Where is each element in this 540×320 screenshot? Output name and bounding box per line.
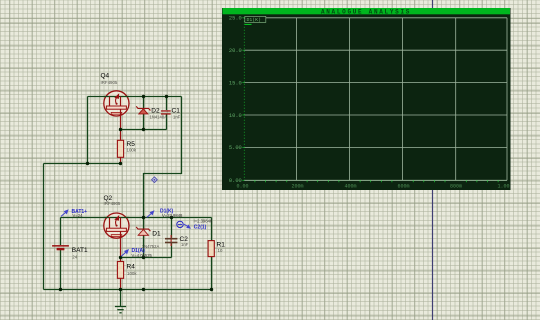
plot gridlines: [244, 18, 507, 181]
diode D1 zener: [136, 227, 150, 235]
resistor R1: [208, 241, 214, 257]
probe D1(K): [147, 208, 183, 218]
sheet border line: [432, 0, 434, 320]
diode D2 zener: [136, 106, 150, 114]
svg-text:D2: D2: [151, 107, 160, 114]
node marker origin diamond: [152, 177, 158, 183]
transistor Q4: [104, 91, 129, 130]
svg-text:1nF: 1nF: [173, 114, 181, 119]
junction R5 bottom: [119, 162, 122, 165]
svg-text:1nF: 1nF: [181, 242, 189, 247]
svg-text:0.00: 0.00: [236, 184, 248, 190]
label Q2: [104, 195, 121, 206]
junction D2 top: [142, 95, 145, 98]
analysis window: [222, 8, 511, 190]
wire right rail from top row to D1 node: [144, 97, 182, 218]
junction Q4 drain R5: [119, 128, 122, 131]
wire R1 top: [211, 218, 213, 241]
wire C1 bottom stub: [166, 114, 168, 129]
ground: [115, 290, 126, 313]
wire top horizontal net Q4 source-drain row: [88, 96, 182, 98]
label Q4: [101, 73, 118, 85]
svg-text:400m: 400m: [344, 184, 356, 190]
junction R1 bottom: [210, 288, 213, 291]
wire battery bottom stub: [60, 250, 62, 290]
wire C1 top stub: [166, 97, 168, 111]
junction BAT1 bottom: [59, 288, 62, 291]
svg-text:C2(1): C2(1): [194, 225, 207, 231]
transistor Q2: [104, 213, 129, 258]
label D2: [150, 107, 168, 119]
svg-text:IRF4905: IRF4905: [101, 80, 118, 85]
svg-text:D1(K): D1(K): [247, 17, 262, 23]
probe BAT1+: [61, 209, 87, 218]
junction Q2 drain R4: [119, 256, 122, 259]
wire C2 top stub: [171, 218, 173, 238]
svg-text:1N4148A: 1N4148A: [150, 114, 168, 119]
svg-text:ANALOGUE ANALYSIS: ANALOGUE ANALYSIS: [321, 8, 411, 15]
svg-text:15.0: 15.0: [229, 80, 242, 86]
wire D1 stem: [143, 218, 145, 258]
plot x axis: [244, 180, 507, 182]
wire mid node horizontal: [121, 257, 172, 259]
svg-text:V=23.9848: V=23.9848: [162, 213, 183, 218]
svg-text:R4: R4: [127, 263, 136, 270]
junction left rail R5 row: [86, 162, 89, 165]
wire D2 stem: [143, 97, 145, 130]
svg-text:800m: 800m: [450, 184, 462, 190]
label C2: [180, 236, 189, 247]
plot y axis dotted: [242, 18, 244, 181]
wire gate row horizontal: [61, 217, 212, 219]
plot legend D1(K): [245, 16, 266, 24]
label R1: [217, 241, 226, 253]
label R4: [127, 263, 138, 276]
svg-text:25.0: 25.0: [229, 16, 242, 22]
wire R5 bottom horizontal: [44, 163, 121, 165]
battery BAT1: [52, 245, 69, 250]
svg-text:100k: 100k: [127, 147, 137, 152]
wire C2 bottom stub: [171, 243, 173, 258]
label BAT1: [72, 247, 88, 260]
junction D1 cathode: [142, 216, 145, 219]
svg-text:20.0: 20.0: [229, 48, 242, 54]
junction ground node: [119, 288, 122, 291]
svg-text:1.00: 1.00: [497, 184, 509, 190]
label D1: [142, 230, 161, 249]
label C1: [172, 107, 181, 119]
junction C2 top: [170, 216, 173, 219]
svg-text:Q4: Q4: [101, 73, 110, 80]
svg-text:D1: D1: [152, 230, 161, 237]
svg-text:V=24: V=24: [73, 213, 84, 218]
svg-text:I=2.39846: I=2.39846: [194, 219, 213, 224]
svg-text:24: 24: [72, 254, 77, 259]
resistor R5: [117, 130, 123, 164]
svg-text:V=4.06525: V=4.06525: [132, 253, 153, 258]
wire R1 bottom: [211, 257, 213, 290]
svg-text:200m: 200m: [291, 184, 303, 190]
svg-text:C1: C1: [172, 107, 181, 114]
capacitor C2: [165, 235, 177, 246]
svg-text:IRF4905: IRF4905: [104, 201, 121, 206]
svg-text:10: 10: [218, 248, 223, 253]
plot y labels: [229, 16, 242, 185]
svg-text:BAT1: BAT1: [72, 247, 88, 254]
label R5: [127, 141, 137, 152]
probe D1(A): [121, 248, 152, 258]
wire drain node horizontal: [121, 129, 167, 131]
svg-text:10.0: 10.0: [229, 113, 242, 119]
plot x labels: [236, 184, 509, 190]
svg-text:100k: 100k: [127, 271, 137, 276]
svg-text:5.00: 5.00: [229, 145, 242, 151]
svg-text:600m: 600m: [397, 184, 409, 190]
junction C1 top: [165, 95, 168, 98]
wire battery top stub: [60, 218, 62, 246]
wire left rail upper: [87, 97, 89, 164]
junction D1 anode: [142, 256, 145, 259]
wire left rail lower: [43, 164, 45, 290]
wire bottom rail: [44, 289, 212, 291]
current probe C2(1): [177, 219, 213, 231]
capacitor C1: [161, 110, 171, 114]
junction D2 bottom: [142, 128, 145, 131]
junction bottom rail: [142, 288, 145, 291]
resistor R4: [117, 258, 123, 290]
